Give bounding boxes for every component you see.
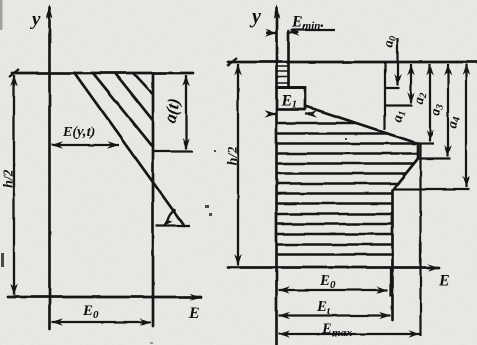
E axis (right): [228, 266, 439, 269]
angle mark (slope symbol): [156, 210, 190, 226]
witness y=158.5: [418, 157, 451, 159]
a1 dimension line: [410, 64, 412, 104]
svg-text:h/2: h/2: [2, 169, 17, 188]
top surface line y=73: [12, 72, 193, 75]
Emax witness vertical: [419, 144, 421, 337]
Et dimension: [279, 314, 391, 316]
witness x=391 below axis: [390, 268, 392, 297]
a4 dimension line: [465, 64, 467, 188]
tick top-left (left diagram): [9, 69, 19, 77]
svg-text:y: y: [30, 9, 41, 30]
hatch diagonal d1 (main boundary): [75, 73, 185, 226]
a0 dimension line: [396, 38, 398, 86]
E1 box (profile step): [277, 86, 306, 89]
y axis: [48, 8, 51, 329]
top surface reference line y=62: [228, 61, 477, 64]
h/2 dimension (left): [13, 75, 15, 295]
E axis: [8, 296, 201, 299]
main diagonal of profile: [305, 106, 418, 144]
Emin underline: [291, 29, 335, 31]
svg-text:E: E: [188, 305, 200, 322]
horizontal hatch lines: [278, 123, 419, 255]
hatch rungs of Emin strip: [277, 67, 289, 84]
witness y=88: [384, 87, 400, 89]
E1 width dimension: [268, 113, 313, 115]
a(t) dimension (left): [153, 75, 193, 152]
witness y=189.5: [393, 188, 470, 190]
svg-text:y: y: [250, 6, 261, 28]
profile lower edge: [391, 190, 394, 320]
hatch diagonal d3: [115, 73, 153, 121]
E(y,t) dimension arrow: [52, 144, 120, 146]
Emax dimension: [279, 333, 420, 335]
bottom width dimensions (right): [279, 268, 420, 335]
profile max edge: [417, 144, 420, 159]
witness y=105.5: [384, 104, 412, 106]
tick top-left (right diagram): [227, 58, 237, 66]
E0 dimension (left bottom): [52, 321, 152, 323]
hatch diagonal d2: [93, 73, 153, 147]
y axis (right): [275, 8, 278, 345]
svg-text:E: E: [438, 272, 450, 289]
profile: Emin strip right edge: [277, 31, 419, 320]
y axis arrowhead: [46, 4, 53, 19]
svg-text:h/2: h/2: [226, 147, 241, 166]
hatch diagonal d4: [134, 73, 154, 94]
stray scan specks: [0, 0, 347, 344]
witness vertical x=385: [384, 62, 386, 130]
svg-text:E(y,t): E(y,t): [62, 125, 95, 140]
a2 dimension line: [429, 64, 431, 142]
right-side depth dimensions: [384, 38, 469, 336]
h/2 dimension (right): [237, 64, 239, 266]
E0 dimension: [279, 289, 389, 291]
witness y=143.5: [418, 142, 434, 144]
witness line y=151.5: [153, 150, 193, 152]
a3 dimension line: [447, 64, 449, 157]
Emin dimension: [266, 30, 335, 33]
profile return diagonal: [393, 159, 419, 191]
section right edge / E0 ordinate: [152, 73, 155, 326]
